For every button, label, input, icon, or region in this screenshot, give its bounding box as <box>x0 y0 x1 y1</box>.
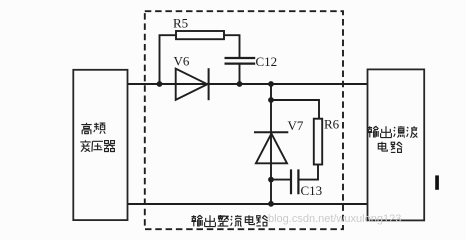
svg-text:C13: C13 <box>301 183 323 198</box>
svg-text:R5: R5 <box>173 16 188 31</box>
svg-text:V6: V6 <box>174 54 190 69</box>
svg-text:C12: C12 <box>256 54 278 69</box>
svg-text:V7: V7 <box>288 118 304 133</box>
svg-text:R6: R6 <box>324 117 340 132</box>
svg-text:blog.csdn.net/wuxulong123: blog.csdn.net/wuxulong123 <box>268 213 401 225</box>
